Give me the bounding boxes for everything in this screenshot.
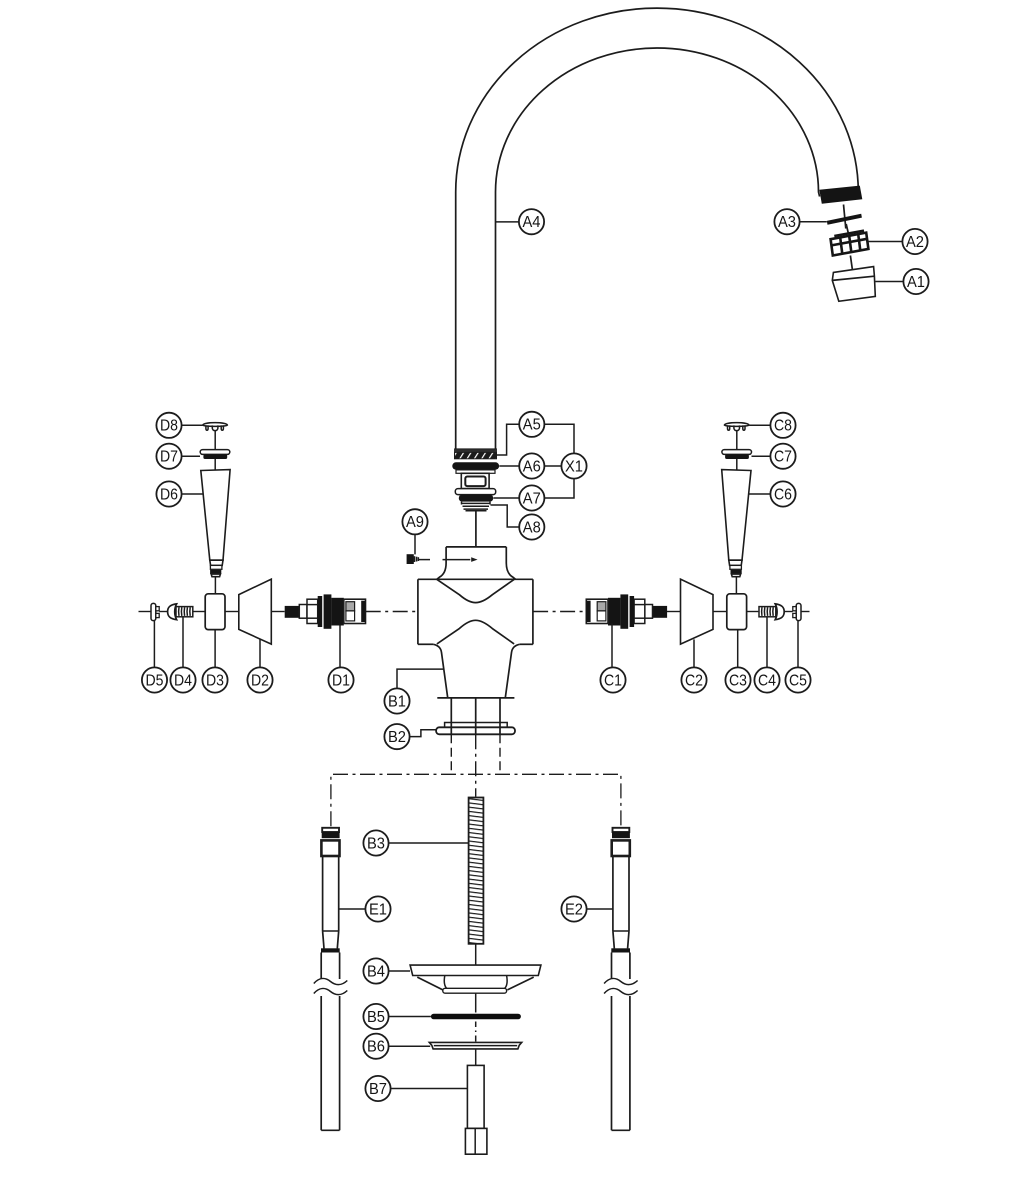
svg-text:A3: A3 xyxy=(778,214,796,231)
faucet body B1 xyxy=(418,547,533,698)
label A5 xyxy=(519,412,544,437)
label D4 xyxy=(170,667,195,692)
wire D8-D7 xyxy=(214,431,216,450)
spacer ring xyxy=(456,470,495,473)
svg-text:A9: A9 xyxy=(406,514,424,531)
wire stud lower shank xyxy=(475,944,477,965)
leader B2 elbow xyxy=(410,730,437,737)
svg-text:A4: A4 xyxy=(523,214,541,231)
hidden shank lines (dashed) xyxy=(451,734,500,797)
label E2 xyxy=(561,896,586,921)
shank tube lines xyxy=(451,699,500,723)
leader B4 xyxy=(389,970,411,972)
svg-text:D8: D8 xyxy=(160,418,178,435)
escutcheon flange B2 xyxy=(436,727,515,734)
svg-text:B5: B5 xyxy=(367,1009,385,1026)
leader B6 xyxy=(389,1045,431,1047)
spout A4 (gooseneck tube) xyxy=(456,8,859,449)
svg-text:C1: C1 xyxy=(604,672,622,689)
spout lower hatched ferrule A5 xyxy=(455,449,497,459)
escutcheon D2 xyxy=(239,579,271,644)
friction washer B6 xyxy=(429,1042,521,1049)
svg-text:C5: C5 xyxy=(789,672,807,689)
wire stem aerator to housing xyxy=(850,256,852,270)
leader E2 xyxy=(587,908,613,910)
leader A9 xyxy=(414,534,416,554)
svg-text:C6: C6 xyxy=(774,486,792,503)
label A8 xyxy=(519,514,544,539)
wire stem B6-B7 xyxy=(475,1049,477,1066)
label E1 xyxy=(365,896,390,921)
spout end nut (black band) xyxy=(819,186,862,204)
construction line (deck outline) xyxy=(331,774,621,826)
leader A1 xyxy=(875,281,903,283)
label A9 xyxy=(402,509,427,534)
leader D8 xyxy=(182,424,203,426)
label C4 xyxy=(754,667,779,692)
leader D3 xyxy=(214,630,216,668)
horizontal centerline xyxy=(139,611,810,613)
leader C6 xyxy=(749,493,771,495)
svg-text:A1: A1 xyxy=(907,274,925,291)
label D6 xyxy=(156,481,181,506)
leader C2 xyxy=(693,639,695,667)
label C1 xyxy=(600,667,625,692)
label A2 xyxy=(902,229,927,254)
label D7 xyxy=(156,444,181,469)
leader C5 xyxy=(797,621,799,668)
label B6 xyxy=(363,1034,388,1059)
shank lines crossing flange xyxy=(451,723,500,735)
leader A2 xyxy=(868,241,903,243)
leader C1 xyxy=(611,624,613,668)
valve stem block D3 xyxy=(205,594,225,630)
svg-text:A6: A6 xyxy=(523,458,541,475)
leader C4 xyxy=(766,617,768,668)
leader A7 xyxy=(493,497,519,499)
handle C6 xyxy=(722,470,751,577)
svg-text:D4: D4 xyxy=(174,672,192,689)
label D8 xyxy=(156,413,181,438)
svg-text:A7: A7 xyxy=(523,490,541,507)
svg-text:B1: B1 xyxy=(388,693,406,710)
aerator housing A1 xyxy=(832,267,875,302)
svg-text:B2: B2 xyxy=(388,729,406,746)
screw cover C5 xyxy=(793,603,801,620)
setscrew A9 xyxy=(407,554,419,564)
cartridge D1 xyxy=(285,594,366,628)
label B5 xyxy=(363,1004,388,1029)
svg-text:B3: B3 xyxy=(367,835,385,852)
svg-text:C8: C8 xyxy=(774,418,792,435)
handle screw button C8 xyxy=(724,423,749,431)
svg-text:C7: C7 xyxy=(774,449,792,466)
svg-text:E2: E2 xyxy=(565,901,583,918)
label D1 xyxy=(328,667,353,692)
svg-text:A2: A2 xyxy=(906,234,924,251)
handle cap D7 xyxy=(200,450,230,459)
label A6 xyxy=(519,453,544,478)
svg-text:C3: C3 xyxy=(729,672,747,689)
leader D5 xyxy=(153,621,155,668)
handle screw C4 xyxy=(759,604,784,620)
label C8 xyxy=(770,413,795,438)
wire stem washer to aerator xyxy=(846,224,848,234)
svg-text:A8: A8 xyxy=(523,519,541,536)
o-ring A8 xyxy=(459,495,493,502)
label A3 xyxy=(774,209,799,234)
leader A5 elbow xyxy=(497,424,519,455)
leader C3 xyxy=(737,630,739,668)
supply tube E2 xyxy=(604,828,638,1131)
leader A7 to X1 elbow xyxy=(545,479,574,498)
svg-text:B6: B6 xyxy=(367,1039,385,1056)
label A4 xyxy=(519,209,544,234)
leader C8 xyxy=(749,424,770,426)
svg-text:D7: D7 xyxy=(160,449,178,466)
svg-text:E1: E1 xyxy=(369,901,387,918)
threaded end below A8 xyxy=(462,502,491,511)
handle screw button D8 xyxy=(203,423,228,431)
wire C7-C6 xyxy=(736,459,738,470)
collar ring xyxy=(455,489,495,495)
leader D4 xyxy=(182,617,184,668)
rubber washer B5 xyxy=(431,1014,521,1020)
escutcheon C2 xyxy=(681,579,714,644)
leader A4 xyxy=(496,221,520,223)
mounting nut B7 xyxy=(465,1065,487,1154)
label D5 xyxy=(142,667,167,692)
leader A8 elbow xyxy=(491,505,520,527)
wire C6-C3 xyxy=(735,577,737,594)
supply tube E1 xyxy=(314,828,348,1131)
leader B7 xyxy=(391,1088,468,1090)
dashed screw axis xyxy=(419,557,478,562)
handle cap C7 xyxy=(722,450,752,459)
valve stem block C3 xyxy=(727,594,747,630)
label C2 xyxy=(681,667,706,692)
label X1 xyxy=(561,453,586,478)
leader B3 xyxy=(389,842,469,844)
washer A3 xyxy=(827,214,862,225)
label A7 xyxy=(519,485,544,510)
mounting washer B4 xyxy=(410,965,541,993)
diverter A7 xyxy=(461,473,489,488)
wire stem below B4 xyxy=(475,993,477,1012)
link A6 to X1 xyxy=(545,465,561,467)
gasket plate xyxy=(445,723,508,728)
leader B5 xyxy=(389,1016,431,1018)
leader D1 xyxy=(339,626,341,668)
aerator insert A2 xyxy=(831,231,869,256)
label C6 xyxy=(770,481,795,506)
label C5 xyxy=(785,667,810,692)
svg-text:D6: D6 xyxy=(160,486,178,503)
svg-text:A5: A5 xyxy=(523,417,541,434)
wire D6-D3 xyxy=(214,577,216,594)
wire C8-C7 xyxy=(736,431,738,450)
leader A6 xyxy=(499,465,519,467)
wire stem below spout end xyxy=(844,205,846,229)
leader C7 xyxy=(752,455,771,457)
dashed axis B5-B6 xyxy=(475,1022,477,1042)
label B1 xyxy=(384,688,409,713)
leader A5 to X1 elbow xyxy=(545,424,574,453)
o-ring A6 xyxy=(452,462,499,469)
svg-text:X1: X1 xyxy=(565,458,583,475)
label B7 xyxy=(365,1076,390,1101)
label B2 xyxy=(384,724,409,749)
label B4 xyxy=(363,958,388,983)
wire stem spout to body xyxy=(475,511,477,547)
cartridge C1 xyxy=(586,594,667,628)
leader D7 xyxy=(182,455,200,457)
svg-text:C2: C2 xyxy=(685,672,703,689)
label A1 xyxy=(903,269,928,294)
svg-text:C4: C4 xyxy=(758,672,776,689)
leader A3 xyxy=(800,221,827,223)
handle D6 xyxy=(201,470,230,577)
label B3 xyxy=(363,830,388,855)
leader E1 xyxy=(339,908,365,910)
label C7 xyxy=(770,444,795,469)
label C3 xyxy=(725,667,750,692)
svg-text:D1: D1 xyxy=(332,672,350,689)
leader D6 xyxy=(182,493,204,495)
leader B1 elbow xyxy=(397,669,443,688)
svg-text:D2: D2 xyxy=(251,672,269,689)
svg-text:D3: D3 xyxy=(206,672,224,689)
wire D7-D6 xyxy=(214,459,216,470)
handle screw D4 xyxy=(168,604,193,620)
leader D2 xyxy=(259,639,261,667)
svg-text:B4: B4 xyxy=(367,963,385,980)
screw cover D5 xyxy=(151,603,159,620)
svg-text:B7: B7 xyxy=(369,1081,387,1098)
svg-text:D5: D5 xyxy=(146,672,164,689)
label D3 xyxy=(202,667,227,692)
label D2 xyxy=(247,667,272,692)
threaded stud B3 xyxy=(469,798,484,944)
